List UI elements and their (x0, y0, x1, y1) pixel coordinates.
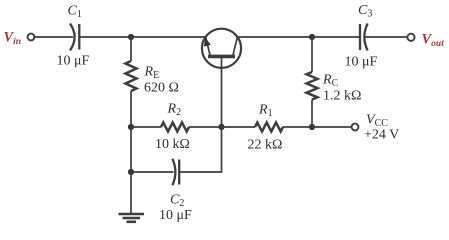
wire node F down to ground (130, 172, 132, 213)
svg-text:10 μF: 10 μF (345, 55, 378, 70)
svg-text:Vout: Vout (422, 32, 445, 50)
svg-text:C2: C2 (170, 193, 184, 210)
wire node F to C2 (131, 171, 174, 173)
wire transistor collector to node C (237, 36, 312, 38)
wire transistor base down to node B (221, 56, 223, 127)
svg-text:1.2 kΩ: 1.2 kΩ (323, 89, 361, 104)
svg-text:C1: C1 (68, 4, 82, 21)
resistor R2 (161, 123, 189, 132)
wire R1 to node E (283, 126, 312, 128)
transistor Q1 (202, 29, 241, 68)
svg-text:10 kΩ: 10 kΩ (155, 137, 190, 152)
svg-text:10 μF: 10 μF (159, 208, 192, 223)
capacitor C3 (360, 24, 368, 51)
capacitor C1 (70, 24, 79, 51)
node C junction (309, 34, 315, 40)
node A junction (128, 34, 134, 40)
node B junction (218, 124, 224, 130)
svg-text:22 kΩ: 22 kΩ (248, 138, 283, 153)
wire C3 to Vout (365, 36, 408, 38)
wire node C to C3 (312, 36, 360, 38)
wire C2 to corner up to node B (179, 127, 221, 172)
wire R2 to node B (189, 126, 222, 128)
wire Vin to C1 (34, 36, 73, 38)
svg-text:620 Ω: 620 Ω (144, 81, 179, 96)
node F junction (C2 branch) (128, 169, 134, 175)
wire left rail node D to node F (130, 127, 132, 172)
terminal VCC (352, 124, 359, 131)
terminal Vin (28, 34, 35, 41)
svg-text:RE: RE (144, 65, 160, 82)
wire node A to transistor emitter (131, 36, 206, 38)
wire C1 to node A (79, 36, 131, 38)
svg-text:R2: R2 (167, 102, 182, 119)
resistor RE (126, 37, 137, 127)
resistor RC (307, 37, 318, 127)
wire node E to VCC terminal (312, 126, 352, 128)
wire node D to R2 (131, 126, 161, 128)
wire node B to R1 (222, 126, 256, 128)
capacitor C2 (172, 159, 179, 185)
terminal Vout (407, 34, 414, 41)
resistor R1 (255, 123, 283, 132)
svg-text:+24 V: +24 V (364, 128, 399, 143)
node E junction (RC / VCC) (309, 124, 315, 130)
svg-text:C3: C3 (358, 3, 372, 20)
node D junction (left rail / R2) (128, 124, 134, 130)
svg-text:10 μF: 10 μF (57, 54, 90, 69)
svg-text:RC: RC (322, 73, 339, 90)
ground (119, 214, 145, 222)
svg-text:Vin: Vin (4, 30, 22, 48)
svg-text:R1: R1 (258, 103, 273, 120)
